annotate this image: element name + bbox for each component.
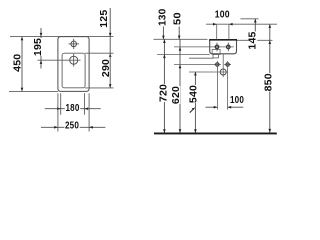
dimension 100 mid [206, 95, 245, 108]
145 top extension line [241, 18, 259, 20]
dimension 450 [12, 37, 23, 92]
drain crosshair [70, 54, 78, 67]
faucet top level line (100 top / 850 extension) [206, 23, 277, 25]
svg-text:180: 180 [66, 103, 80, 114]
svg-text:100: 100 [215, 10, 230, 21]
svg-text:620: 620 [171, 86, 182, 104]
svg-text:720: 720 [159, 84, 170, 102]
drain connection circle [220, 54, 226, 77]
inner bowl outline [62, 53, 85, 88]
svg-text:250: 250 [65, 121, 79, 132]
basin body (elevation) [210, 40, 237, 54]
dimension 125 [99, 8, 111, 57]
faucet hole vertical extension lines [217, 24, 229, 39]
mounting hole left [215, 43, 219, 52]
svg-text:145: 145 [248, 31, 259, 49]
dimension 195 [33, 28, 44, 69]
bowl bottom extension line (290) [85, 87, 113, 89]
mounting hole right [227, 43, 231, 52]
dimension 290 [101, 53, 112, 88]
supply height extension line [174, 64, 214, 66]
drain height extension line [189, 71, 228, 73]
svg-text:50: 50 [172, 12, 183, 25]
faucet hole crosshair [69, 39, 80, 49]
250 extension lines [58, 93, 89, 131]
dimension 180 [45, 103, 101, 114]
dimension 145 [248, 19, 259, 50]
supply vertical extension lines (100 mid) [217, 61, 227, 109]
basin bottom extension line [157, 53, 210, 55]
dimension 100 top [213, 10, 233, 26]
svg-text:195: 195 [33, 38, 44, 56]
svg-text:290: 290 [101, 59, 112, 77]
svg-text:100: 100 [230, 95, 244, 106]
wall / rear extension line [10, 36, 114, 38]
drain centre extension line (195 reference) [38, 59, 81, 61]
basin rim (thick top edge) [209, 39, 237, 41]
svg-text:125: 125 [99, 9, 110, 27]
siphon cover upper [212, 50, 220, 55]
siphon bottom extension line [189, 57, 214, 59]
supply connection right [224, 63, 231, 66]
dimension 850 [264, 24, 275, 132]
svg-text:540: 540 [189, 85, 200, 103]
svg-text:850: 850 [264, 73, 275, 91]
supply connection left [214, 63, 221, 66]
dimension 540 [189, 72, 200, 133]
dimension 250 [41, 121, 105, 132]
dimension 130 [157, 8, 168, 39]
dimension 50 [172, 12, 183, 39]
basin outer rim (plan) [58, 37, 89, 92]
rim extension line right [237, 39, 273, 41]
svg-text:450: 450 [12, 53, 23, 71]
mounting-hole line through basin [174, 46, 234, 48]
dimension 620 [171, 39, 182, 133]
bowl top extension line (125/290) [85, 52, 113, 54]
rim extension line left [154, 38, 208, 40]
180 extension lines [61, 93, 85, 115]
siphon cover lower [213, 54, 218, 58]
floor line [154, 133, 277, 135]
dimension 720 [159, 39, 170, 133]
front edge extension line (450 bottom) [9, 90, 58, 92]
svg-text:130: 130 [157, 8, 168, 26]
